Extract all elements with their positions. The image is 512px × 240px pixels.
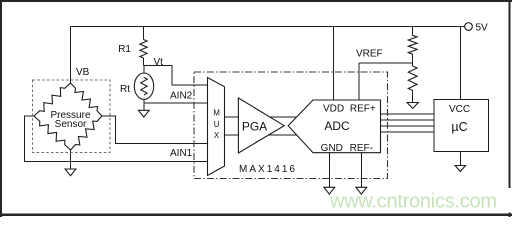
svg-text:R1: R1	[118, 44, 131, 55]
wire REF+ pin drop	[358, 63, 360, 100]
wire VB riser	[70, 27, 72, 84]
svg-text:www.cntronics.com: www.cntronics.com	[329, 191, 497, 213]
wire Rt node to ground	[143, 103, 145, 110]
ground below uC	[455, 166, 465, 172]
svg-text:Sensor: Sensor	[55, 119, 87, 130]
amplifier PGA	[238, 98, 284, 153]
ground below Rt	[138, 110, 149, 117]
svg-text:Vt: Vt	[154, 57, 164, 68]
wire bridge right node to AIN1+ pin	[102, 116, 208, 144]
ground below divider	[407, 103, 418, 109]
thermistor Rt	[134, 73, 153, 99]
wire R1 drop from rail	[143, 27, 145, 40]
wire uC to ground	[459, 152, 461, 166]
wire R1 to Vt node	[143, 58, 145, 66]
svg-text:VCC: VCC	[449, 104, 470, 115]
svg-text:Rt: Rt	[120, 84, 130, 95]
resistor divider upper	[408, 35, 417, 54]
bridge resistor bottom-right	[71, 116, 103, 150]
wire divider to ground	[412, 91, 414, 103]
wire MUX to PGA lower and PGA to ADC lower	[225, 134, 341, 136]
ground below bridge	[65, 169, 76, 176]
bridge resistor top-right	[71, 83, 103, 116]
wire Vt to Rt	[143, 66, 145, 74]
svg-text:GND: GND	[321, 143, 343, 154]
wire GND pin to ground	[328, 153, 330, 188]
resistor divider lower	[408, 66, 417, 91]
microcontroller uC box	[434, 100, 489, 152]
multiplexer MUX	[208, 78, 225, 176]
wire ADC to uC line 3	[345, 125, 434, 127]
svg-text:REF-: REF-	[350, 143, 373, 154]
wire ADC to uC line 4	[345, 131, 434, 133]
wire node Vt to AIN2+ pin	[144, 66, 208, 86]
bridge resistor top-left	[34, 83, 71, 116]
svg-text:ADC: ADC	[324, 119, 350, 133]
svg-text:REF+: REF+	[350, 104, 376, 115]
wire Rt bottom node	[143, 99, 145, 103]
wire bridge bottom to ground	[70, 150, 72, 169]
svg-text:X: X	[214, 131, 220, 140]
MAX1416 dash-dot box	[194, 72, 388, 179]
wire VDD pin drop	[333, 27, 335, 101]
wire bridge left node to AIN1- pin	[25, 116, 208, 162]
svg-text:VREF: VREF	[356, 49, 383, 60]
svg-text:U: U	[214, 120, 220, 129]
wire Rt node to AIN2- pin	[144, 102, 208, 104]
svg-text:MAX1416: MAX1416	[239, 164, 297, 175]
wire 5V top rail	[71, 26, 465, 28]
wire MUX to PGA upper and PGA to ADC upper	[225, 116, 341, 118]
svg-text:M: M	[213, 109, 220, 118]
wire ADC to uC line 2	[345, 119, 434, 121]
wire VCC drop	[459, 27, 461, 100]
svg-text:PGA: PGA	[242, 120, 267, 134]
wire divider middle	[412, 54, 414, 66]
resistor R1	[140, 40, 147, 59]
ADC block	[288, 100, 380, 153]
ground below GND pin	[324, 187, 335, 194]
wire REF- pin to ground	[360, 153, 362, 188]
svg-text:5V: 5V	[476, 22, 489, 33]
pressure sensor bridge dashed box	[33, 80, 111, 153]
svg-text:AIN2: AIN2	[170, 91, 193, 102]
ground below REF- pin	[356, 187, 367, 194]
watermark background	[498, 188, 511, 213]
wire VREF tap	[359, 62, 413, 64]
svg-text:VDD: VDD	[323, 104, 344, 115]
bridge resistor bottom-left	[34, 116, 71, 150]
wire ADC to uC line 1	[345, 113, 434, 115]
svg-text:AIN1: AIN1	[170, 148, 193, 159]
terminal 5V	[465, 23, 473, 31]
wire divider top drop	[412, 27, 414, 36]
svg-text:VB: VB	[76, 67, 90, 78]
svg-text:µC: µC	[451, 120, 467, 134]
